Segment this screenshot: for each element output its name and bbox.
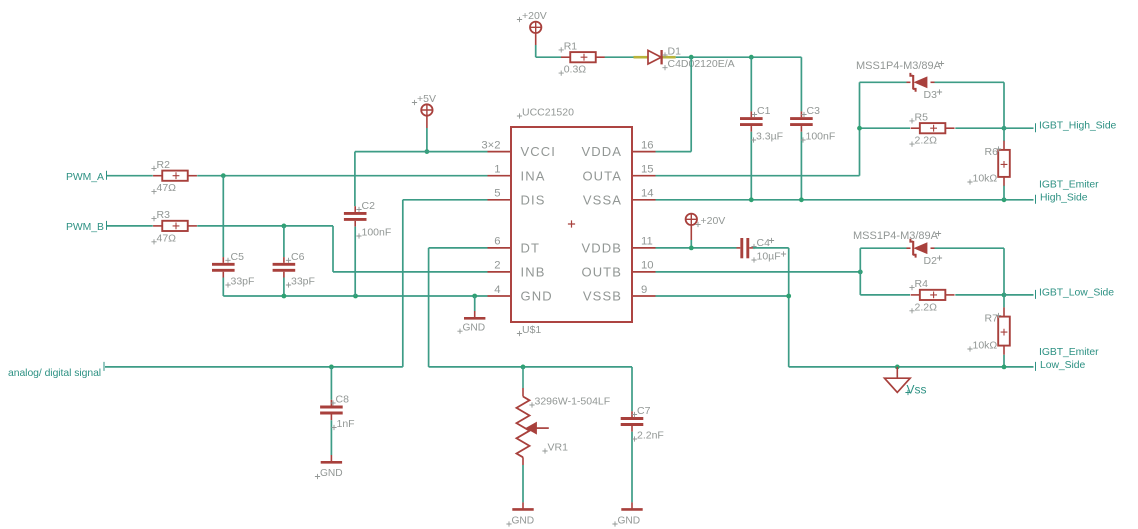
svg-text:C7: C7: [637, 405, 651, 417]
svg-text:14: 14: [641, 188, 654, 200]
svg-text:R7: R7: [985, 313, 999, 325]
svg-text:100nF: 100nF: [362, 227, 392, 239]
svg-text:33pF: 33pF: [231, 276, 255, 288]
svg-text:C1: C1: [757, 105, 771, 117]
svg-text:PWM_B: PWM_B: [66, 222, 104, 233]
svg-text:D2: D2: [924, 255, 938, 267]
svg-text:C4D02120E/A: C4D02120E/A: [668, 58, 735, 70]
svg-text:IGBT_Emiter: IGBT_Emiter: [1039, 179, 1099, 190]
svg-text:10kΩ: 10kΩ: [973, 173, 998, 185]
svg-text:GND: GND: [618, 516, 641, 527]
svg-text:Vss: Vss: [907, 383, 927, 397]
svg-text:2.2Ω: 2.2Ω: [915, 301, 938, 313]
svg-text:47Ω: 47Ω: [157, 232, 177, 244]
svg-text:2: 2: [494, 260, 500, 272]
svg-text:VDDA: VDDA: [581, 144, 622, 159]
svg-text:UCC21520: UCC21520: [522, 107, 574, 119]
svg-text:10: 10: [641, 260, 654, 272]
svg-text:D1: D1: [668, 46, 682, 58]
svg-text:10kΩ: 10kΩ: [973, 340, 998, 352]
svg-text:MSS1P4-M3/89A: MSS1P4-M3/89A: [853, 230, 939, 242]
svg-text:R3: R3: [157, 209, 171, 221]
svg-text:6: 6: [494, 236, 500, 248]
svg-text:3×2: 3×2: [481, 139, 500, 151]
svg-text:16: 16: [641, 139, 654, 151]
svg-text:2.2Ω: 2.2Ω: [915, 135, 938, 147]
svg-text:VCCI: VCCI: [521, 144, 556, 159]
svg-text:3296W-1-504LF: 3296W-1-504LF: [535, 396, 611, 408]
svg-text:VDDB: VDDB: [581, 241, 622, 256]
svg-text:PWM_A: PWM_A: [66, 172, 104, 183]
svg-text:IGBT_High_Side: IGBT_High_Side: [1039, 121, 1117, 132]
svg-text:IGBT_Emiter: IGBT_Emiter: [1039, 347, 1099, 358]
svg-text:DT: DT: [521, 241, 541, 256]
svg-text:+20V: +20V: [701, 215, 726, 227]
svg-text:VR1: VR1: [548, 442, 569, 454]
svg-text:11: 11: [641, 236, 653, 248]
svg-text:R2: R2: [157, 159, 171, 171]
svg-text:+5V: +5V: [417, 93, 436, 105]
svg-text:C8: C8: [336, 394, 350, 406]
svg-text:analog/ digital signal: analog/ digital signal: [8, 368, 101, 379]
svg-text:C2: C2: [362, 200, 376, 212]
svg-text:GND: GND: [512, 516, 535, 527]
svg-text:3.3µF: 3.3µF: [756, 131, 783, 143]
svg-text:C6: C6: [291, 251, 305, 263]
svg-text:D3: D3: [924, 89, 938, 101]
svg-text:100nF: 100nF: [806, 131, 836, 143]
svg-text:1nF: 1nF: [337, 418, 355, 430]
svg-text:47Ω: 47Ω: [157, 182, 177, 194]
svg-text:R6: R6: [985, 146, 999, 158]
svg-text:10µF: 10µF: [757, 251, 781, 263]
svg-text:2.2nF: 2.2nF: [637, 430, 664, 442]
svg-text:High_Side: High_Side: [1040, 193, 1088, 204]
svg-text:GND: GND: [320, 468, 343, 479]
svg-text:R1: R1: [564, 40, 578, 52]
svg-text:OUTB: OUTB: [581, 265, 622, 280]
svg-text:GND: GND: [521, 289, 553, 304]
svg-text:15: 15: [641, 164, 654, 176]
svg-text:U$1: U$1: [522, 324, 541, 336]
svg-text:VSSB: VSSB: [583, 289, 622, 304]
svg-text:Low_Side: Low_Side: [1040, 360, 1086, 371]
svg-text:R4: R4: [915, 278, 929, 290]
svg-text:+20V: +20V: [522, 10, 547, 22]
svg-text:R5: R5: [915, 111, 929, 123]
svg-text:C5: C5: [231, 251, 245, 263]
svg-text:INA: INA: [521, 168, 546, 183]
svg-text:INB: INB: [521, 265, 546, 280]
svg-text:33pF: 33pF: [291, 276, 315, 288]
svg-text:1: 1: [494, 164, 500, 176]
svg-text:9: 9: [641, 284, 647, 296]
svg-text:OUTA: OUTA: [582, 168, 622, 183]
svg-text:4: 4: [494, 284, 500, 296]
svg-text:VSSA: VSSA: [583, 192, 622, 207]
svg-text:0.3Ω: 0.3Ω: [564, 64, 587, 76]
svg-text:5: 5: [494, 188, 500, 200]
svg-text:GND: GND: [463, 323, 486, 334]
svg-text:MSS1P4-M3/89A: MSS1P4-M3/89A: [856, 60, 942, 72]
svg-text:IGBT_Low_Side: IGBT_Low_Side: [1039, 287, 1114, 298]
svg-text:DIS: DIS: [521, 192, 546, 207]
svg-text:C3: C3: [807, 105, 821, 117]
